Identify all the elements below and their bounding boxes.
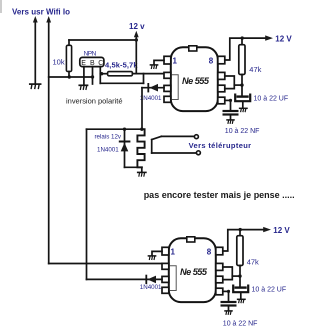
node dot 10k bottom [68, 75, 71, 78]
svg-text:10k: 10k [53, 57, 65, 66]
pin 1 [164, 56, 171, 64]
svg-text:1N4001: 1N4001 [140, 284, 162, 291]
pin 3 [164, 85, 171, 91]
pin 8 U2 [216, 247, 223, 255]
relay bottom wire [125, 166, 142, 168]
resistor 47k U2 [239, 230, 241, 236]
svg-text:10 à 22 UF: 10 à 22 UF [254, 96, 289, 103]
notch U2 [187, 237, 195, 242]
diode D1 1N4001 [142, 87, 164, 89]
svg-text:1N4001: 1N4001 [97, 146, 119, 153]
ground G4 coil [138, 172, 146, 176]
capacitor C4 10 a 22 NF [223, 290, 229, 292]
pin 1 U2 [162, 247, 169, 255]
wire pin7 pin6 loop U2 [223, 267, 233, 280]
wire arrow line A2 (long vertical to bottom) [48, 21, 50, 264]
svg-text:1N4001: 1N4001 [140, 95, 162, 102]
ground below C4 [225, 311, 232, 314]
node dot 47k top U2 [239, 228, 242, 231]
ground G2 [79, 85, 87, 89]
wire pin7 pin6 loop [225, 76, 235, 89]
wire V4 [143, 74, 145, 84]
node dot relay coil top [140, 128, 143, 131]
node dot relay diode top [123, 128, 126, 131]
resistor 10k [68, 40, 70, 45]
wire H3 [100, 73, 107, 75]
power 12v arrow top middle [135, 36, 137, 74]
svg-text:12 V: 12 V [273, 226, 290, 235]
svg-text:8: 8 [207, 248, 212, 257]
ground below C3 [238, 299, 245, 302]
diode D3 1N4001 [87, 278, 163, 280]
svg-text:inversion polarité: inversion polarité [66, 97, 123, 106]
pin 6 [218, 85, 225, 92]
pin 8 [218, 56, 225, 64]
ground G5 small U2 [148, 256, 155, 260]
wire H2 [100, 82, 143, 84]
capacitor C1 10 a 22 UF [241, 85, 243, 96]
wire H4 to 12v [69, 39, 136, 41]
ground G3 small [150, 65, 157, 69]
pin1 ground wire [154, 60, 164, 64]
svg-text:10 à 22 UF: 10 à 22 UF [252, 287, 287, 294]
svg-text:pas encore tester mais je pens: pas encore tester mais je pense ..... [144, 190, 295, 200]
svg-text:8: 8 [209, 57, 214, 66]
pin 7 [218, 72, 225, 79]
pin 6 U2 [216, 276, 223, 283]
switch contact [151, 140, 153, 153]
wire pin8 to 12V [225, 38, 266, 60]
inner loop pin2-pin4 [171, 75, 178, 100]
svg-text:Ne 555: Ne 555 [182, 76, 210, 86]
capacitor C2 10 a 22 NF [225, 99, 231, 101]
pin 5 U2 [216, 288, 223, 295]
pin 3 U2 [162, 276, 169, 282]
node dot 47k top [241, 36, 244, 39]
wire pin8 U2 to 12V [223, 230, 264, 251]
svg-text:1: 1 [171, 248, 176, 257]
wire V86 long vertical [86, 129, 88, 279]
wire V142 to relay [141, 88, 143, 130]
notch [189, 46, 197, 51]
IC U1 Ne 555 body [171, 47, 218, 111]
switch terminal circle top [194, 135, 198, 139]
svg-text:12 V: 12 V [275, 34, 292, 43]
pin E wire [83, 67, 85, 85]
pin 2 [164, 72, 171, 78]
relay K1 top wire [87, 128, 142, 130]
svg-text:4,5k-5,7k: 4,5k-5,7k [105, 61, 138, 70]
svg-text:10 à 22 NF: 10 à 22 NF [225, 128, 260, 135]
node dot 47k bottom [240, 83, 243, 86]
IC U2 Ne 555 body [169, 238, 216, 302]
node dot pin5 corner U2 [227, 290, 230, 293]
capacitor C3 10 a 22 UF [239, 276, 241, 287]
node dot 12v junction [135, 38, 138, 41]
pin 4 [164, 96, 171, 102]
svg-text:Vers usr Wifi Io: Vers usr Wifi Io [12, 8, 70, 17]
relay coil [137, 129, 144, 167]
wire arrow line A1 [34, 21, 36, 83]
svg-text:Ne 555: Ne 555 [180, 267, 208, 277]
wire H1 base line [49, 76, 93, 78]
wire resistor to pin2 [132, 73, 164, 75]
node dot pin5 corner [229, 99, 232, 102]
node dot 47k bottom U2 [238, 274, 241, 277]
pin 2 U2 [162, 263, 169, 269]
pin 5 [218, 97, 225, 104]
ground G1 [30, 84, 41, 88]
svg-text:10 à 22 NF: 10 à 22 NF [223, 321, 258, 328]
diode D2 relay flyback [124, 129, 126, 167]
inner loop pin2-pin4 U2 [169, 266, 176, 291]
svg-text:Vers télérupteur: Vers télérupteur [189, 141, 252, 150]
ground below C1 [240, 108, 247, 111]
svg-text:47k: 47k [249, 65, 261, 74]
svg-text:NPN: NPN [84, 51, 97, 58]
svg-text:47k: 47k [247, 258, 259, 267]
node dot B [91, 75, 94, 78]
wire H5 to bottom 555 pin2 [49, 263, 162, 265]
wire pin1 ground U2 [152, 251, 162, 255]
svg-text:relais 12v: relais 12v [95, 134, 122, 141]
pin 4 U2 [162, 287, 169, 293]
pin C wire [99, 67, 101, 84]
pin B wire [92, 67, 94, 84]
switch terminal circle bottom [196, 151, 200, 155]
ground below C2 [227, 120, 234, 123]
resistor 47k [241, 38, 243, 45]
svg-text:1: 1 [173, 57, 178, 66]
svg-text:12 v: 12 v [129, 22, 145, 31]
node dot C junction [100, 72, 103, 75]
pin 7 U2 [216, 263, 223, 270]
